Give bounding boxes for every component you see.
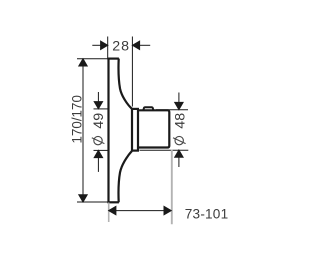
dim 170/170 vertical line with arrows: [79, 59, 87, 202]
svg-text:170/170: 170/170: [69, 95, 84, 143]
extension line left of dim 28: [107, 37, 109, 59]
extension line diameter 48 bottom: [140, 149, 189, 151]
svg-text:73-101: 73-101: [185, 206, 229, 221]
extension line bottom of 170: [77, 201, 108, 203]
extension tick diameter 49 top: [94, 108, 109, 110]
escutcheon bell profile bottom: [118, 151, 131, 202]
escutcheon plate bottom edge: [107, 201, 119, 203]
handle tab: [143, 107, 153, 110]
extension line top of 170: [77, 58, 108, 60]
svg-text:48: 48: [173, 113, 189, 129]
svg-text:49: 49: [91, 113, 107, 129]
dim diameter 49 bottom arrow: [94, 150, 102, 172]
dim 28 right arrow: [132, 41, 150, 49]
gray extension line at wall plane for dim 73-101: [108, 203, 110, 223]
dim diameter 48 bottom arrow: [175, 150, 183, 167]
extension tick diameter 49 bottom: [94, 149, 109, 151]
dim 73-101 line with arrows: [109, 206, 172, 214]
extension line right of dim 28: [131, 37, 133, 107]
gray extension line at handle front for dim 73-101: [171, 150, 173, 225]
dim diameter 48 top arrow: [175, 93, 183, 110]
escutcheon bell profile top: [118, 59, 131, 109]
diameter symbol for dim 49: [92, 136, 105, 144]
escutcheon plate top edge: [107, 57, 119, 59]
handle cylinder: [138, 110, 169, 147]
collar ring (diameter 49): [131, 109, 139, 151]
extension line diameter 48 top: [156, 109, 188, 111]
escutcheon plate back line: [107, 58, 109, 203]
dim 28 left arrow: [92, 41, 108, 49]
diameter symbol for dim 48: [173, 136, 186, 144]
dim diameter 49 top arrow: [94, 92, 102, 109]
svg-text:28: 28: [112, 38, 130, 54]
